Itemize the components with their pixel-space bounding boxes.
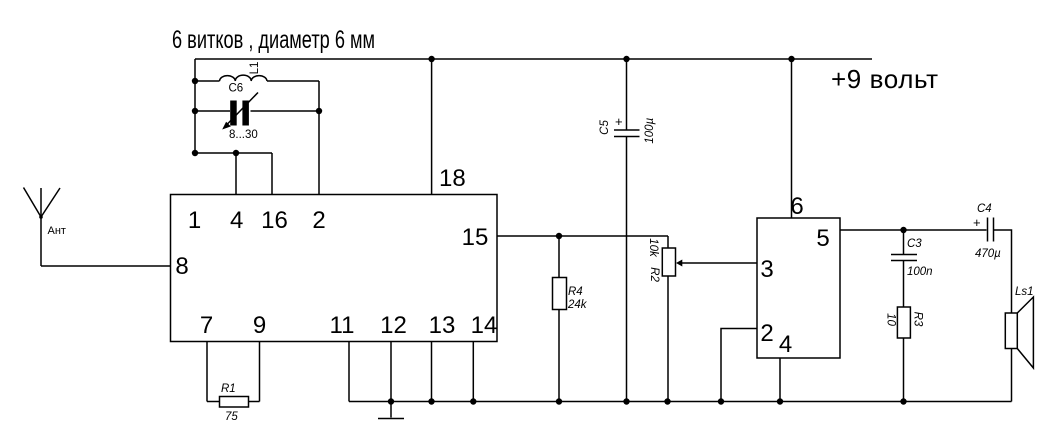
capacitor C3 (891, 255, 917, 261)
svg-text:3: 3 (760, 256, 773, 283)
svg-text:R4: R4 (568, 286, 583, 298)
svg-text:6: 6 (790, 193, 803, 220)
wire pin 14 down (472, 342, 474, 402)
svg-text:470µ: 470µ (975, 248, 1001, 260)
wire to pin 16 (271, 153, 273, 195)
svg-text:Ls1: Ls1 (1015, 286, 1034, 298)
svg-text:10k: 10k (647, 238, 659, 258)
capacitor C5 (614, 130, 640, 137)
svg-text:6 витков , диаметр 6 мм: 6 витков , диаметр 6 мм (172, 26, 375, 54)
svg-text:10: 10 (884, 313, 896, 326)
junction dot top rail C5 (623, 56, 629, 62)
wire pin 12 down (390, 342, 392, 402)
junction dot rail R3 (900, 398, 906, 404)
junction dot top rail pin18 (428, 56, 434, 62)
wire C6 left stub (195, 110, 230, 112)
svg-text:4: 4 (230, 207, 243, 234)
wire pin 18 vertical (431, 59, 433, 195)
junction dot rail pin14 (470, 398, 476, 404)
svg-text:2: 2 (312, 207, 325, 234)
svg-text:C6: C6 (229, 83, 244, 95)
ground symbol (378, 402, 404, 419)
wire pin 11 down (348, 342, 350, 402)
svg-text:15: 15 (462, 224, 489, 251)
junction dot rail C5 (623, 398, 629, 404)
wire pin7 stub to R1 (207, 401, 220, 403)
wire pin 4 U2 down (779, 358, 781, 402)
junction dot rail pin13 (428, 398, 434, 404)
wire pin 6 vertical (791, 59, 793, 218)
IC U1 body (171, 195, 498, 342)
wire L1 left stub (195, 80, 220, 82)
junction dot rail pin2 U2 (718, 398, 724, 404)
wire to pin 4 (235, 153, 237, 195)
svg-text:R2: R2 (648, 267, 660, 282)
wire C3 top (903, 230, 905, 255)
junction dot tank left top (192, 78, 198, 84)
capacitor C4 (988, 218, 994, 242)
wire tank bottom horizontal (195, 152, 272, 154)
potentiometer R2 wiper arrow (676, 260, 757, 267)
potentiometer R2 body (662, 248, 675, 276)
wire C5 bottom (626, 137, 628, 402)
junction dot rail R2 (664, 398, 670, 404)
wire R2 top (667, 236, 669, 248)
junction dot pin15 R4 (556, 233, 562, 239)
wire R1 to pin 9 (249, 401, 260, 403)
svg-text:12: 12 (380, 312, 407, 339)
capacitor C6 variable arrow (222, 93, 258, 130)
svg-text:Ант: Ант (48, 225, 66, 237)
svg-text:C5: C5 (599, 120, 611, 135)
wire C6 right stub (251, 110, 320, 112)
wire speaker bottom (1011, 349, 1013, 402)
capacitor C6 variable left plate (230, 101, 237, 126)
wire tank right vertical to pin 2 (318, 81, 320, 195)
svg-text:14: 14 (471, 312, 498, 339)
svg-text:8...30: 8...30 (229, 129, 258, 141)
svg-text:L1: L1 (249, 62, 261, 75)
svg-text:2: 2 (760, 320, 773, 347)
svg-text:R3: R3 (912, 312, 924, 327)
svg-text:75: 75 (225, 411, 238, 423)
junction dot tank left mid (192, 108, 198, 114)
svg-text:9: 9 (253, 312, 266, 339)
svg-text:4: 4 (779, 331, 792, 358)
wire tank left vertical (194, 59, 196, 153)
junction dot top rail pin6 (788, 56, 794, 62)
wire R3 bottom (903, 338, 905, 402)
antenna symbol (24, 188, 61, 267)
svg-text:8: 8 (175, 253, 188, 280)
svg-text:16: 16 (261, 207, 288, 234)
wire R4 top (558, 236, 560, 278)
svg-text:C3: C3 (907, 238, 922, 250)
wire C3 to R3 (903, 261, 905, 308)
svg-text:+: + (973, 215, 981, 230)
wire pin 13 down (431, 342, 433, 402)
svg-text:R1: R1 (221, 383, 236, 395)
junction dot rail pin4 U2 (777, 398, 783, 404)
wire R4 bottom (558, 310, 560, 402)
svg-text:13: 13 (429, 312, 456, 339)
capacitor C6 variable right plate (242, 101, 249, 126)
wire pin 2 U2 left (721, 329, 757, 402)
svg-text:7: 7 (200, 312, 213, 339)
svg-text:1: 1 (188, 207, 201, 234)
resistor R4 (553, 278, 567, 310)
junction dot rail pin12 (388, 398, 394, 404)
inductor L1 (220, 75, 268, 81)
svg-text:+9 вольт: +9 вольт (831, 64, 939, 94)
svg-text:C4: C4 (977, 203, 992, 215)
wire pin 7 down (206, 342, 208, 402)
svg-text:11: 11 (330, 312, 355, 339)
wire C5 top (626, 59, 628, 130)
svg-text:24k: 24k (567, 299, 588, 311)
resistor R3 (897, 307, 910, 338)
IC U2 body (757, 218, 840, 358)
junction dot rail R4 (556, 398, 562, 404)
wire C4 to speaker (994, 230, 1012, 313)
wire R2 bottom (667, 276, 669, 402)
svg-text:18: 18 (439, 165, 466, 192)
wire L1 right stub (267, 80, 319, 82)
junction dot pin5 C3 (900, 227, 906, 233)
wire +9V top rail (195, 58, 872, 60)
svg-text:5: 5 (816, 225, 829, 252)
svg-text:100µ: 100µ (644, 117, 656, 143)
resistor R1 (220, 397, 249, 408)
wire ground bottom rail (349, 401, 1012, 403)
wire antenna to pin 8 (41, 265, 171, 267)
wire pin 5 horizontal (840, 229, 987, 231)
wire pin 15 horizontal (497, 235, 668, 237)
wire pin 9 down (259, 342, 261, 402)
junction dot tank left bottom (192, 150, 198, 156)
svg-text:+: + (615, 114, 623, 129)
speaker Ls1 (1005, 297, 1033, 368)
svg-text:100n: 100n (907, 266, 933, 278)
junction dot tank bottom pin4 (233, 150, 239, 156)
junction dot tank right mid (316, 108, 322, 114)
